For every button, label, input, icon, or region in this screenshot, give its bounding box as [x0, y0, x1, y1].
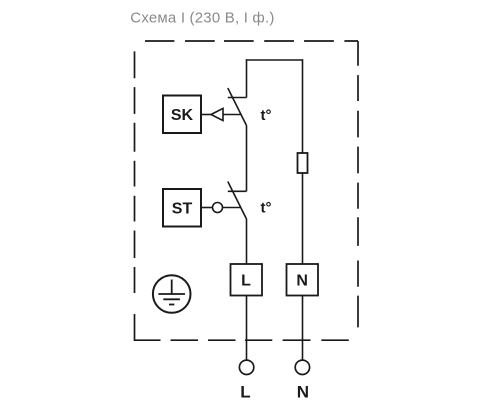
wire: left drop from bus to SK contact [246, 59, 248, 97]
SK actuator link wire [201, 114, 211, 116]
svg-text:t°: t° [261, 107, 272, 124]
svg-text:L: L [241, 273, 251, 290]
box terminal L [231, 264, 263, 296]
wire: between SK contact and ST contact [246, 126, 248, 192]
svg-text:L: L [240, 383, 250, 402]
wire: L box to L terminal [246, 296, 248, 361]
protective earth symbol [153, 275, 191, 313]
terminal circle N [295, 360, 309, 374]
dashed enclosure border [134, 41, 358, 340]
svg-text:N: N [297, 383, 309, 402]
ST actuator circle [213, 203, 223, 213]
svg-text:N: N [296, 273, 308, 290]
svg-text:t°: t° [261, 200, 272, 217]
wire: top bus L [247, 59, 303, 61]
wire: ST contact to L box [246, 219, 248, 264]
box ST [163, 189, 201, 227]
svg-text:Схема I (230 В, I ф.): Схема I (230 В, I ф.) [130, 10, 274, 27]
SK actuator triangle [211, 108, 223, 120]
box SK [163, 96, 201, 134]
ST actuator link wire [201, 207, 213, 209]
wire: N box to N terminal [302, 296, 304, 361]
box terminal N [287, 264, 319, 296]
ST actuator link to arm [223, 207, 241, 209]
terminal circle L [239, 360, 253, 374]
thermal contact ST: fixed tick [228, 190, 247, 192]
thermal contact SK: moving arm [228, 88, 247, 126]
wire: resistor to N box [302, 173, 304, 264]
svg-text:SK: SK [171, 107, 194, 124]
thermal contact SK: fixed tick [228, 97, 247, 99]
resistor element on N branch [298, 153, 308, 173]
SK actuator link to arm [223, 114, 241, 116]
thermal contact ST: moving arm [228, 182, 247, 220]
wire: right drop from bus to resistor [302, 59, 304, 153]
svg-text:ST: ST [172, 201, 193, 218]
